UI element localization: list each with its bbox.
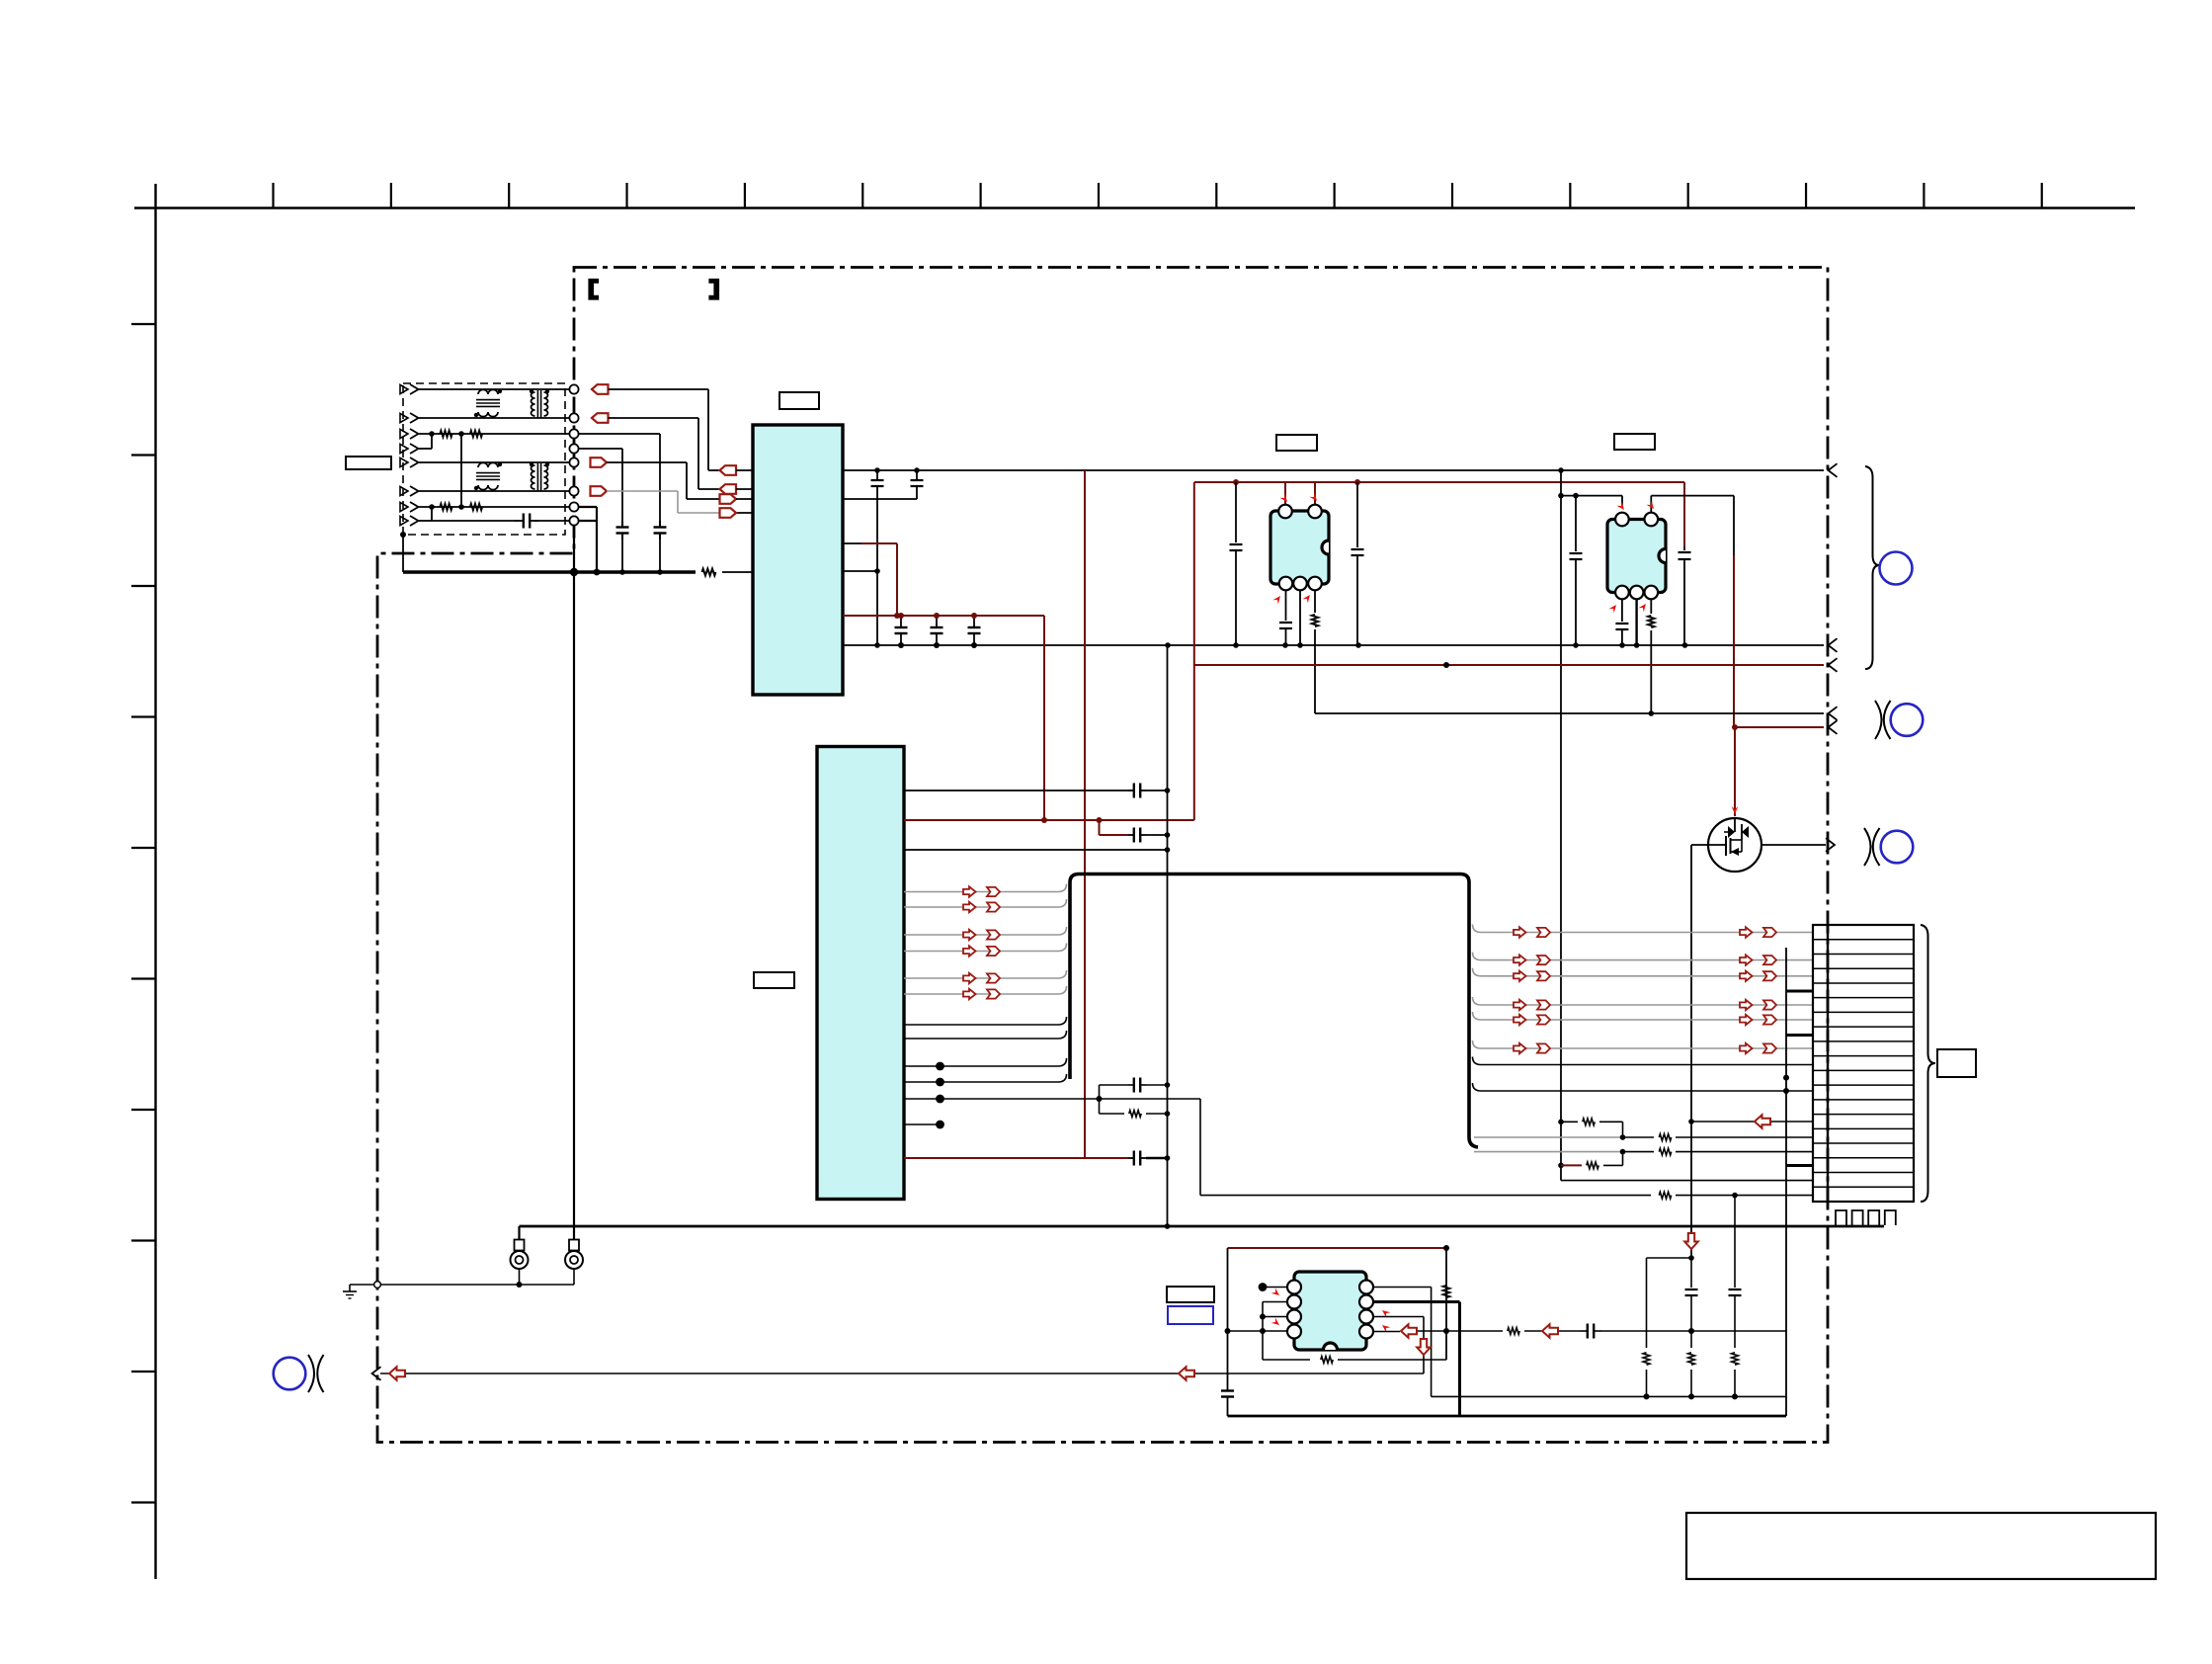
terminal fan out — [1826, 838, 1835, 852]
pin arrow PC902-1 — [1616, 502, 1626, 512]
wire sense B — [1474, 1149, 1654, 1155]
arrow fb left A — [1401, 1324, 1417, 1338]
wire C902 drop — [579, 434, 660, 521]
wire sense A — [1474, 1134, 1654, 1140]
wire jog 7-8 — [419, 507, 432, 521]
snubber link — [1647, 1258, 1692, 1348]
resistor R913 — [1659, 1192, 1813, 1199]
wire Q901 source — [1688, 845, 1709, 1261]
wire 6V rail (red) — [843, 613, 1044, 619]
signal arrows group C — [1740, 927, 1776, 1053]
signal bus (thick) — [1070, 874, 1478, 1148]
label box PC902 — [1614, 434, 1655, 450]
power rail vertical (red) — [1084, 470, 1086, 1158]
wire AC line 1 — [419, 388, 570, 390]
wire drive (red) — [1732, 724, 1824, 730]
signal arrows group A — [963, 886, 1000, 999]
resistor R904 — [470, 504, 482, 511]
wire IC902 p3 — [904, 847, 1170, 853]
label box IC902 — [754, 972, 794, 988]
arrow remote A — [389, 1367, 405, 1380]
wire boost (red) — [904, 817, 1194, 823]
net flag DET2 at IC901 — [720, 508, 737, 518]
wire AC line 2 — [419, 417, 570, 419]
wire IC901 fb — [843, 543, 897, 616]
wire vref (red) — [904, 1157, 1128, 1159]
resistor R912 — [1587, 1152, 1623, 1169]
connector CN input arrows — [400, 384, 419, 526]
resistor R914 — [1263, 1357, 1446, 1364]
capacitor C920 — [1580, 1324, 1786, 1339]
PC902 pins — [1615, 513, 1658, 600]
wire DET1 to IC901 — [607, 462, 719, 499]
capacitor C908 — [968, 613, 981, 648]
wire return — [432, 520, 570, 522]
chassis ground wire — [350, 1282, 574, 1289]
wire PC902 pin2 top — [1651, 496, 1734, 727]
resistor R908 — [1100, 1111, 1168, 1118]
connector key pins — [1836, 1210, 1896, 1225]
capacitor C919 — [1221, 1382, 1234, 1416]
resistor R911 — [1583, 1119, 1623, 1137]
capacitor C917 — [1100, 1078, 1168, 1093]
capacitor C921 — [1685, 1258, 1698, 1348]
net flag DET1 — [591, 458, 608, 467]
choke L901 — [474, 389, 502, 417]
rail riser (red) — [1193, 482, 1195, 820]
capacitor C912 — [1679, 546, 1691, 645]
capacitor C906 — [895, 613, 908, 648]
connector CN905 pin column — [1783, 948, 1813, 1416]
wire PC902 mid pin — [1635, 599, 1637, 645]
terminal VCC rail — [1829, 463, 1838, 477]
resistor R915 — [1446, 1328, 1580, 1335]
net flag VCC2 at IC901 — [720, 484, 754, 494]
wire PC901 mid pin — [1299, 590, 1301, 645]
wire PC902 gate net — [1558, 493, 1622, 505]
net flag DET2 — [591, 486, 608, 496]
wire aux gnd — [1432, 1393, 1786, 1399]
wire PC903 p6 (thick) — [1373, 1302, 1460, 1417]
capacitor C905 — [911, 470, 924, 499]
gate line (red) — [1734, 727, 1736, 816]
wire DET2 to IC901 (gray) — [607, 491, 753, 513]
PC901 pin wires top — [1285, 482, 1315, 505]
wire tp4 — [904, 1121, 944, 1129]
PC901 photocoupler body — [1270, 511, 1329, 584]
net flag VCC1 at IC901 — [720, 465, 754, 475]
terminal GND rail — [1829, 638, 1838, 652]
resistor R916 (vert) — [1443, 1286, 1450, 1297]
pin arrow PC902-3 — [1638, 602, 1648, 612]
resistor R901 — [440, 431, 451, 438]
IC901 standby converter — [753, 425, 843, 695]
wire standby 5V (red) — [1194, 662, 1824, 668]
wire PC903 p5 — [1373, 1288, 1432, 1397]
wire return drop (thick) — [579, 520, 597, 522]
rail vertical to PC1 (red) — [1043, 616, 1045, 820]
filter terminals — [569, 384, 578, 525]
arrow down Q-line — [1684, 1233, 1698, 1249]
arrow fb left B — [1542, 1324, 1558, 1338]
PC903 pins — [1287, 1281, 1373, 1339]
arrow ctl down — [1417, 1339, 1431, 1355]
transistor Q901 — [1708, 818, 1761, 872]
wire jog 3-4 — [419, 434, 432, 449]
resistor R906 — [1312, 590, 1319, 713]
resistor R918 (vert) — [1688, 1353, 1695, 1397]
wire fb node — [904, 1095, 1200, 1104]
resistor R903 — [440, 504, 451, 511]
ground bus (thick) — [400, 532, 753, 576]
wire tp1 — [904, 1058, 1067, 1070]
wire vsense — [1225, 1328, 1288, 1334]
capacitor C914 — [1615, 599, 1628, 645]
pin arrow Q901 — [1732, 806, 1739, 814]
net flag DET1 at IC901 — [720, 494, 754, 504]
PC902 photocoupler body — [1607, 520, 1666, 593]
connector ring CN906 — [274, 1355, 324, 1392]
resistor R905 (bus) — [702, 569, 716, 576]
net flag AC-H — [592, 384, 609, 394]
capacitor C913 — [1570, 496, 1583, 645]
resistor R909 — [1659, 1134, 1813, 1141]
PC901 pins — [1278, 505, 1322, 591]
wire IC901 gnd stub — [843, 568, 880, 574]
PC903 photocoupler body — [1294, 1272, 1366, 1350]
capacitor C902 — [654, 521, 667, 572]
wire divider B — [1561, 1164, 1582, 1166]
terminal standby 5V — [1829, 658, 1838, 672]
ring terminal E901 — [511, 1240, 529, 1286]
wire remote — [372, 1367, 1425, 1380]
wire aux gnd 2 (thick) — [1228, 1415, 1787, 1418]
connector CN905 body — [1813, 925, 1914, 1202]
wire Q901 out — [1761, 844, 1826, 846]
resistor R917 (vert) — [1643, 1353, 1650, 1397]
brace power group — [1865, 466, 1880, 669]
board name brackets — [589, 280, 719, 300]
label box CN905 — [1937, 1049, 1976, 1077]
label box IC901 — [779, 392, 819, 409]
wire sense 2 — [419, 504, 570, 510]
wire NC dot — [1259, 1283, 1287, 1291]
chassis bus vertical (thick) — [573, 536, 575, 1240]
wire ocp node — [1200, 1099, 1651, 1196]
wire error loop (red) — [1228, 1247, 1447, 1249]
capacitor C907 — [931, 613, 943, 648]
pin arrows PC903 — [1271, 1288, 1391, 1332]
wire divider A — [1561, 1121, 1578, 1123]
gnd drop vertical — [1165, 645, 1171, 1229]
capacitor C901 — [515, 514, 538, 529]
capacitor C904 — [871, 470, 884, 645]
wire PC drive (red) — [1194, 479, 1684, 485]
capacitor C910 — [1352, 482, 1364, 645]
branch cap (red) — [1100, 820, 1129, 835]
wire AC line 4 — [419, 490, 570, 492]
capacitor C915 — [1128, 784, 1168, 798]
net flag AC-C — [592, 413, 609, 423]
choke L902 — [474, 462, 502, 490]
resistor R902 — [470, 431, 482, 438]
main gnd bus (thick) — [520, 1226, 1885, 1240]
rc branch — [1099, 1085, 1101, 1114]
wire AC-H to IC901 — [609, 389, 720, 470]
arrow remote B — [1179, 1367, 1194, 1380]
pin arrow PC901-4 — [1272, 594, 1282, 604]
pin arrow PC901-2 — [1309, 493, 1319, 503]
pin arrow PC901-3 — [1302, 593, 1312, 603]
capacitor C911 — [1279, 590, 1292, 645]
resistor R919 (vert) — [1732, 1353, 1739, 1397]
wire fan return — [1691, 1121, 1813, 1123]
connector ring CN902 — [1880, 552, 1913, 585]
cap drop C922 — [1729, 1196, 1742, 1348]
wire reg out — [904, 788, 1170, 793]
chassis ground symbol — [343, 1285, 357, 1298]
wire VCC rail — [843, 467, 1824, 473]
bus exit wires — [1473, 925, 1814, 1095]
wire GND rail — [843, 642, 1824, 648]
wire ilim — [1561, 1180, 1813, 1182]
wire PC903 in — [1260, 1302, 1287, 1361]
board outline AWS-1201 (dash-dot) — [377, 268, 1828, 1443]
resistor R910 — [1659, 1148, 1813, 1155]
pin arrow PC901-1 — [1279, 494, 1289, 504]
terminal drive — [1829, 720, 1838, 734]
wire sense 1 — [419, 431, 570, 437]
sense line vertical — [1558, 470, 1564, 1181]
line-filter dashed box — [403, 383, 565, 535]
wire tp2 — [904, 1074, 1067, 1086]
label box bottom — [1167, 1287, 1214, 1302]
wire AC-C to IC901 — [609, 418, 720, 489]
wire sense drop (thick) — [579, 507, 597, 572]
signal arrows group B — [1514, 927, 1550, 1053]
IC902 main converter — [817, 747, 904, 1200]
capacitor C909 — [1230, 482, 1243, 645]
title box — [1686, 1513, 2156, 1579]
blue label box — [1168, 1306, 1213, 1324]
transformer T901 — [530, 389, 549, 418]
arrow fan return — [1755, 1115, 1770, 1128]
capacitor C918 — [1128, 1151, 1168, 1166]
label box FL901 — [346, 457, 391, 469]
wire mid join — [460, 434, 462, 507]
wire C903 drop — [579, 449, 622, 521]
capacitor C903 — [616, 521, 629, 572]
wire error drop — [1227, 1248, 1229, 1382]
wire PC902 vcc (red) — [1683, 482, 1685, 546]
wire PC903 p8 — [1373, 1328, 1449, 1334]
connector ring CN903 — [1875, 701, 1923, 739]
brace CN905 — [1921, 925, 1935, 1202]
resistor R907 — [1648, 599, 1655, 713]
wire protect — [1315, 710, 1824, 716]
pin arrow PC902-4 — [1608, 603, 1618, 613]
bus entry wires — [904, 884, 1067, 1040]
feedback riser — [1443, 1245, 1449, 1360]
label box PC901 — [1276, 435, 1317, 451]
connector ring CN904 — [1864, 828, 1913, 866]
ring terminal E902 — [565, 1240, 583, 1286]
capacitor C916 — [1128, 828, 1170, 843]
terminal protect — [1829, 707, 1838, 720]
wire IC901 pin — [843, 498, 917, 500]
wire PC903 p7 — [1373, 1317, 1424, 1374]
wire AC line 3 — [419, 461, 570, 463]
pin arrow PC902-2 — [1646, 501, 1656, 511]
transformer T902 — [530, 462, 549, 491]
